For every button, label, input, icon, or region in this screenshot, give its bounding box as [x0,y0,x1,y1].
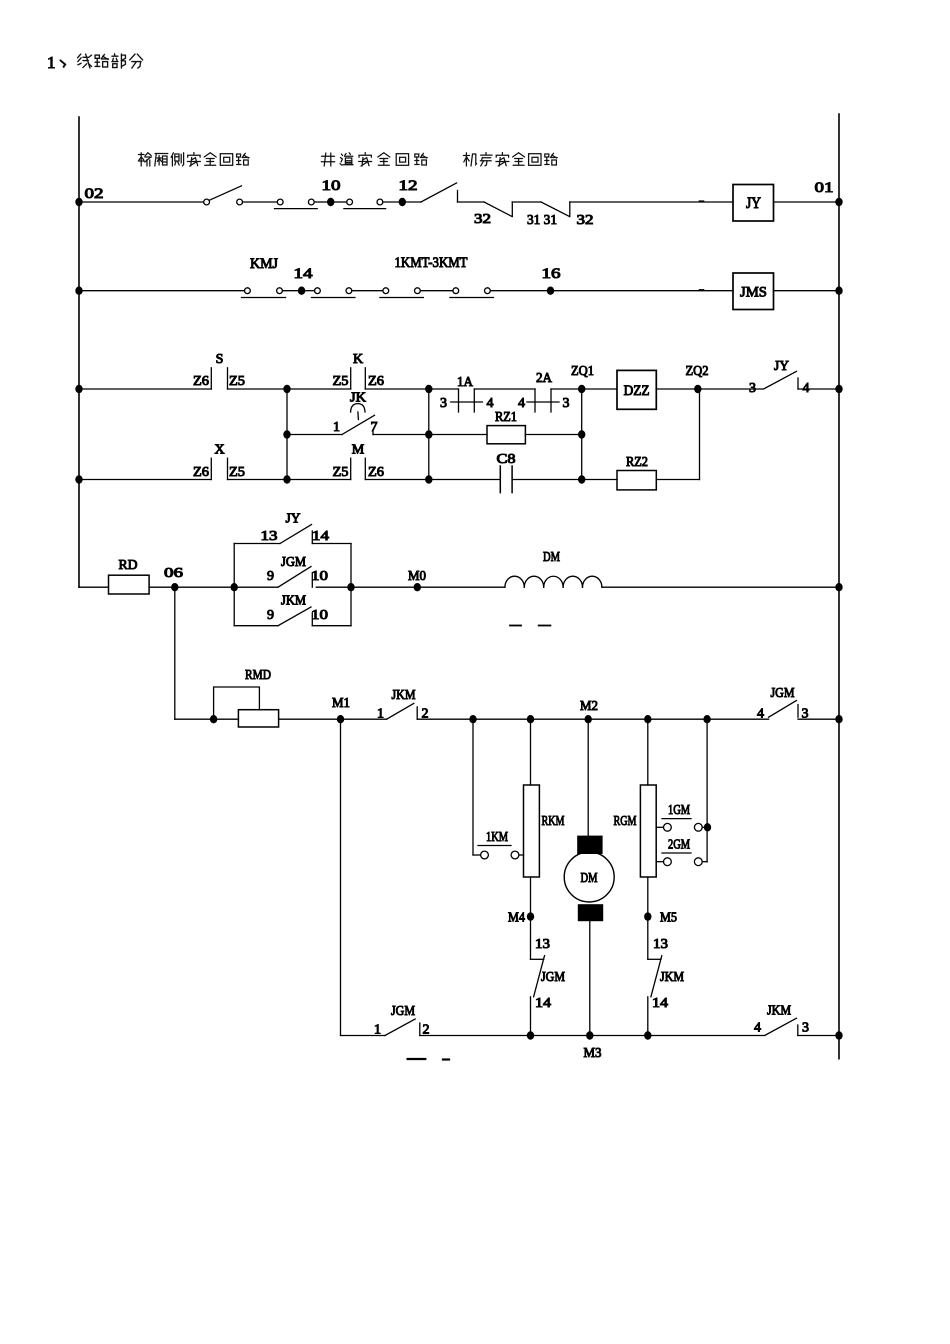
contact JGM (13-14) vertical [531,917,566,1036]
wire branchB down [530,719,532,785]
svg-text:JY: JY [286,512,301,527]
wire bottom a [341,1035,386,1037]
wire RKM to M4 [530,877,532,917]
motor DM body [564,852,614,902]
contact 1KM [478,829,524,859]
node row3c-j1 [283,475,290,483]
svg-text:02: 02 [85,186,104,202]
node row3c-j2 [425,475,432,483]
node row5-D [703,715,710,723]
node row5-j0 [210,715,217,723]
wire row1 left [79,201,204,203]
svg-text:1A: 1A [457,375,474,390]
wire row1 b [458,201,485,203]
capacitor C8 [497,452,516,493]
wire M1 down [340,719,342,1035]
wire row3c d [365,479,429,481]
svg-text:2A: 2A [536,371,553,386]
wire row3a j [698,388,763,390]
wire row4 c [417,586,505,588]
contact JKM (13-14) vertical [648,917,685,1036]
wire branchA down [473,719,481,855]
node 01 [815,180,843,206]
svg-text:06: 06 [164,566,183,581]
svg-text:32: 32 [474,212,491,227]
svg-text:13: 13 [261,529,278,544]
svg-text:Z6: Z6 [193,374,209,389]
svg-text:12: 12 [399,178,418,194]
svg-text:1KM: 1KM [486,829,508,844]
svg-text:31 31: 31 31 [527,213,557,228]
svg-text:M3: M3 [584,1046,602,1061]
connector pair row2-2 [312,288,355,298]
svg-text:1: 1 [333,420,340,435]
node row3b-right [578,430,585,438]
node row3b-j2 [425,430,432,438]
resistor RGM [614,785,657,877]
wire row2 c [420,290,453,292]
wire row5 c [341,718,387,720]
node row5-right [835,715,842,723]
motor DM brush bottom [578,905,602,921]
wire row3c a [79,479,211,481]
wire row3c e [429,479,501,481]
wire row3c f [512,479,582,481]
contact X (Z6-Z5) [193,443,245,481]
wire row5 a [175,718,239,720]
contact 2GM [656,837,707,866]
svg-text:4: 4 [487,396,494,411]
label 1KMT-3KMT [395,255,468,271]
node bottom-right [835,1031,842,1039]
svg-text:M0: M0 [408,569,426,584]
node 1GM-right [704,823,711,831]
svg-text:ZQ1: ZQ1 [571,364,594,379]
node row5-C [644,715,651,723]
node bottom-2 [644,1031,651,1039]
contact JKM (4-3) bottom [754,1004,809,1036]
resistor RZ2 [617,455,656,490]
node row3c-j3 [578,475,585,483]
node 10 [314,178,347,206]
wire motor top [587,719,589,836]
resistor RMD bypass [214,687,260,719]
wire bottom c [648,1035,765,1037]
svg-text:JY: JY [774,359,789,374]
heading 1、线路部分 [47,53,143,72]
wire row3c b [228,479,288,481]
wire row3a b [228,388,288,390]
svg-text:13: 13 [535,937,550,952]
wire row4 a [149,586,234,588]
svg-text:C8: C8 [497,452,516,467]
wire row3b d [525,434,581,436]
switch machine-room (knife) [406,183,458,202]
wire row1 a [243,201,278,203]
node ZQ1 [571,364,594,393]
node row3a-j2 [425,385,432,393]
contact M (Z5-Z6) [333,443,385,481]
node bottom-1 [527,1031,534,1039]
fuse RD [79,558,149,594]
svg-text:M: M [352,443,365,458]
svg-text:3: 3 [749,381,756,396]
wire row2 b [352,290,383,292]
node 12 [383,178,418,206]
wire motor down [589,921,591,1036]
vertical j1 [286,389,288,480]
svg-text:4: 4 [518,396,525,411]
svg-text:7: 7 [371,420,378,435]
node M3 [584,1031,602,1061]
svg-text:13: 13 [653,937,668,952]
wire row1 d [570,200,733,203]
artifact dashes under DM [510,625,550,627]
node M2 [580,699,598,723]
svg-text:JGM: JGM [281,555,306,570]
node M1 [332,696,350,723]
wire row1 c [512,201,541,203]
contact JGM (9-10) [234,555,328,587]
svg-text:JKM: JKM [767,1004,791,1019]
svg-text:1GM: 1GM [668,802,690,817]
svg-text:M1: M1 [332,696,350,711]
node M0 [408,569,426,591]
connector pair KMJ [242,288,286,298]
svg-text:M5: M5 [660,911,677,926]
wire row1 e [774,201,840,203]
wire row5 d [417,718,707,720]
artifact dashes bottom [408,1058,449,1061]
wire row3c g [582,479,617,481]
svg-text:ZQ2: ZQ2 [686,364,709,379]
connector pair row2-4 [450,288,494,298]
contact JKM (9-10) [234,594,351,626]
resistor RZ1 [487,410,525,444]
connector pair 2 row1 [344,199,386,209]
contact 32-31 first [474,202,512,227]
wire row3a g [551,388,582,390]
node row2-left [75,287,82,295]
svg-text:1KMT-3KMT: 1KMT-3KMT [395,255,468,271]
motor DM brush top [578,836,602,853]
wire branchD down [706,719,708,862]
svg-text:JKM: JKM [660,970,684,985]
svg-text:JGM: JGM [391,1004,415,1019]
label 31 31 [527,213,557,228]
wire bottom b [420,1035,648,1037]
label 井道安全回路 [321,153,427,167]
wire row3a d [365,388,429,390]
vertical j2 [428,389,430,480]
svg-text:RZ2: RZ2 [626,455,648,470]
svg-text:3: 3 [802,707,809,722]
svg-text:M2: M2 [580,699,598,714]
wire row3a h [582,388,617,390]
wire row3a f [474,388,535,390]
svg-text:RKM: RKM [542,814,565,829]
svg-text:2GM: 2GM [668,837,690,852]
node row5-B [527,715,534,723]
svg-text:JMS: JMS [740,285,767,301]
wire row2 left [79,290,244,292]
svg-text:JKM: JKM [392,688,416,703]
svg-text:3: 3 [440,396,447,411]
contact S (Z6-Z5) [193,352,245,389]
node row3b-left [283,430,290,438]
contact JY (3-4) [749,359,810,396]
svg-text:9: 9 [267,569,274,584]
wire row3a e [429,388,459,390]
svg-text:Z6: Z6 [368,374,384,389]
svg-text:1: 1 [374,1023,381,1038]
vertical ZQ1 column [581,389,583,480]
wire row2 d [554,289,733,292]
svg-text:4: 4 [754,1021,761,1036]
contact 31-32 second [541,202,594,228]
svg-text:JGM: JGM [541,970,565,985]
svg-text:14: 14 [312,529,329,544]
svg-text:Z6: Z6 [368,465,384,480]
svg-text:Z6: Z6 [193,465,209,480]
contact JGM (1-2) bottom [374,1004,430,1038]
svg-text:RGM: RGM [614,814,637,829]
svg-text:DZZ: DZZ [624,383,650,399]
connector pair 1 row1 [275,199,318,209]
node row4-j2 [347,583,354,591]
wire row5 b [279,718,341,720]
wire row3b c [429,434,487,436]
label 轿厢侧安全回路 [138,153,249,167]
svg-text:Z5: Z5 [229,374,245,389]
node row4-j1 [231,583,238,591]
switch car-side safety (knife) [204,186,243,205]
wire right bus 01 [838,114,840,1059]
wire branchC down [647,719,649,785]
inductor DM brake coil [505,550,602,587]
node 14 [282,266,314,295]
wire row3c c [287,479,351,481]
contact JGM (4-3) row5 [707,686,839,722]
svg-text:01: 01 [815,180,834,196]
resistor RMD [238,668,278,727]
node row3c-left [75,475,82,483]
svg-text:JK: JK [350,390,366,405]
wire bottom d [798,1035,839,1037]
svg-text:DM: DM [543,550,560,565]
contact 2A (4-3) [518,371,570,412]
node row4-right [835,583,842,591]
wire 06 down [174,587,176,719]
wire row3a left [79,388,211,390]
svg-text:32: 32 [577,213,594,228]
wire row3b a [287,434,342,436]
wire row3a i [656,388,698,390]
node 02 [75,186,103,206]
wire RGM to M5 [647,877,649,917]
wire RZ2 to ZQ2 [699,389,701,480]
svg-text:JY: JY [746,195,761,212]
svg-text:3: 3 [563,396,570,411]
parallel group rails [234,544,351,626]
node row5-A [469,715,476,723]
svg-text:14: 14 [535,996,551,1011]
svg-text:1: 1 [377,707,384,722]
node 16 [490,266,561,295]
node row3a-right [835,385,842,393]
resistor RKM [524,785,565,877]
wire row4 b [316,586,417,588]
svg-text:KMJ: KMJ [250,256,278,272]
svg-text:JGM: JGM [771,686,795,701]
label 机房安全回路 [464,153,558,167]
node ZQ2 [686,364,709,393]
contact JKM (1-2) row5 [377,688,429,722]
svg-text:14: 14 [294,266,314,282]
svg-text:DM: DM [581,871,598,886]
svg-text:Z5: Z5 [229,465,245,480]
switch JK (1-7) [333,390,378,436]
svg-text:RD: RD [119,558,138,573]
wire row3c h [656,479,699,481]
svg-text:10: 10 [322,178,341,194]
svg-text:Z5: Z5 [333,465,349,480]
node row3a-j1 [283,385,290,393]
svg-text:K: K [353,352,363,367]
contact JY (13-14) [234,512,351,545]
svg-text:RZ1: RZ1 [495,410,517,425]
svg-text:Z5: Z5 [333,374,349,389]
wire left bus 02 [78,117,80,587]
svg-text:S: S [216,352,224,367]
svg-text:X: X [214,443,224,458]
relay coil DZZ [617,370,656,409]
contact 1A (3-4) [440,375,494,412]
node 06 [164,566,183,591]
node row2-right [835,287,842,295]
contact K (Z5-Z6) [333,352,385,389]
node row3a-left [75,385,82,393]
svg-text:16: 16 [542,266,562,282]
label KMJ [250,256,278,272]
node M4 [508,911,534,926]
wire row4 d [602,586,839,588]
svg-text:RMD: RMD [245,668,271,683]
relay coil JMS [733,273,774,310]
relay coil JY [733,185,774,222]
svg-text:14: 14 [652,996,668,1011]
connector pair row2-3 [380,288,424,298]
wire row3b b [373,434,429,436]
svg-text:JKM: JKM [281,594,306,609]
svg-text:10: 10 [311,569,328,584]
wire row2 e [774,290,840,292]
svg-text:9: 9 [267,608,274,623]
svg-text:3: 3 [802,1021,809,1036]
svg-text:1: 1 [47,53,56,72]
node M5 [644,911,677,926]
contact 1GM [656,802,707,831]
wire row3a k [798,388,839,390]
svg-text:10: 10 [311,608,328,623]
svg-text:M4: M4 [508,911,525,926]
wire row3a c [287,388,351,390]
